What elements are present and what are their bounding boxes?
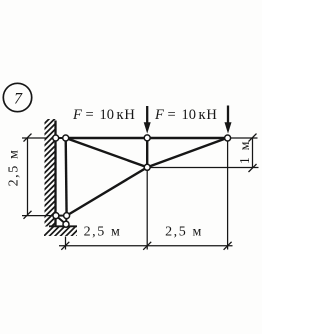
member: middle vertical bbox=[146, 138, 148, 167]
bottom dimension extension lines bbox=[65, 237, 67, 250]
dimension line 1 m right bbox=[252, 138, 254, 168]
dimension: right 1 m extension lines bbox=[231, 137, 258, 139]
tick bottom-left bbox=[61, 242, 69, 250]
wall hatching bbox=[38, 106, 62, 251]
pin node top-right bbox=[225, 135, 231, 141]
pin node bottom-left truss bbox=[64, 213, 70, 219]
svg-text:2,5 м: 2,5 м bbox=[84, 225, 122, 240]
svg-text:7: 7 bbox=[14, 91, 23, 108]
pin node top-left wall bbox=[53, 135, 59, 141]
wall edge line bbox=[54, 121, 56, 227]
svg-text:F=10кН: F=10кН bbox=[154, 107, 218, 123]
tick top 1m bbox=[249, 134, 257, 142]
member: diagonal middle to top-right bbox=[147, 138, 227, 168]
member: diagonal top-left to middle bbox=[66, 138, 148, 167]
tick bottom-left dim bbox=[24, 211, 32, 219]
bottom dimension line bbox=[59, 245, 233, 247]
force arrow 2 shaft bbox=[227, 106, 229, 125]
ground hatching under support bbox=[40, 226, 87, 240]
tick bottom-right bbox=[224, 242, 232, 250]
pin node bottom-left wall bbox=[53, 213, 59, 219]
svg-text:2,5 м: 2,5 м bbox=[7, 149, 22, 187]
tick bottom 1m bbox=[249, 164, 257, 172]
dimension: left vertical extension lines bbox=[22, 137, 47, 139]
pin node bottom support bbox=[63, 221, 69, 227]
pin node top-middle bbox=[144, 135, 150, 141]
support link top-left bbox=[56, 137, 66, 139]
force arrow 2 head bbox=[225, 122, 232, 133]
svg-text:2,5 м: 2,5 м bbox=[165, 225, 203, 240]
pin node middle bbox=[144, 164, 150, 170]
member: top chord bbox=[66, 137, 228, 139]
svg-text:F=10кН: F=10кН bbox=[72, 107, 136, 123]
member: left vertical bbox=[64, 138, 67, 216]
svg-text:1 м: 1 м bbox=[238, 140, 253, 164]
dimension line 2,5 m left bbox=[27, 138, 29, 215]
ground line bbox=[49, 225, 77, 227]
force arrow 1 head bbox=[144, 122, 151, 133]
support links bottom-left bbox=[56, 215, 67, 217]
force arrow 1 shaft bbox=[146, 106, 148, 124]
member: diagonal bottom-left to middle bbox=[67, 167, 148, 215]
pin node top-left truss bbox=[63, 135, 69, 141]
tick bottom-middle bbox=[143, 242, 151, 250]
tick top-left dim bbox=[24, 134, 32, 142]
problem number circle 7 bbox=[3, 83, 31, 111]
